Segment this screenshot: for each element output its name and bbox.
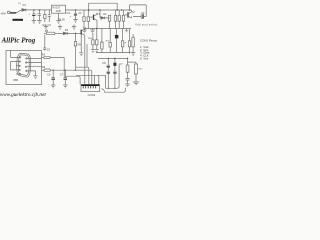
resistor bank row lower (101, 29, 103, 53)
cap C5 vertical above DB9 box (43, 35, 46, 51)
rail lower right 2 (98, 57, 128, 59)
svg-text:C7: C7 (60, 73, 64, 77)
capacitor C2 (38, 10, 41, 21)
svg-text:C?: C? (119, 62, 123, 66)
wire top rail left (21, 9, 51, 11)
svg-text:CON1: CON1 (88, 93, 96, 97)
diode D3 (63, 28, 75, 34)
svg-text:IC1: IC1 (66, 11, 71, 15)
node dots on rail (99, 9, 101, 11)
resistor column RB (88, 28, 99, 53)
bottom wire loop (106, 65, 120, 89)
resistor R2 vertical (83, 10, 85, 29)
resistor column RA (91, 33, 95, 53)
ground (58, 25, 62, 30)
ground (37, 21, 41, 24)
collector loop wire (89, 3, 118, 10)
svg-text:C1: C1 (37, 13, 41, 17)
cap C6 (47, 70, 55, 88)
DB9 connector (13, 53, 31, 82)
regulator gnd pin wire (58, 13, 60, 20)
transistor Q2 (125, 10, 135, 18)
resistor R1 vertical (43, 10, 47, 27)
CON1 connector (81, 85, 100, 97)
cap C9b dark (113, 58, 116, 89)
diode D1 (22, 3, 26, 11)
svg-text:AllPic Prog: AllPic Prog (1, 37, 36, 45)
svg-text:www.guelektro.cjb.net: www.guelektro.cjb.net (0, 92, 46, 98)
transistor Q3 (76, 26, 87, 84)
resistor R12 lower right (133, 62, 143, 85)
node dot (33, 9, 35, 11)
svg-text:5. Vss: 5. Vss (140, 57, 149, 61)
svg-text:Vdd mod select: Vdd mod select (135, 23, 157, 27)
mid chain resistor R8 (44, 29, 63, 35)
svg-text:CON1 Pinout: CON1 Pinout (140, 38, 157, 42)
upper sub rail right (130, 5, 147, 17)
svg-text:C6: C6 (47, 73, 51, 77)
CON1 pinout text (140, 38, 157, 60)
resistor R7 vertical (122, 10, 124, 23)
svg-text:IN OUT: IN OUT (52, 7, 60, 9)
ground (44, 25, 48, 30)
transistor Q1 (90, 12, 101, 29)
ground (56, 21, 60, 24)
ground below mid rail 2 (90, 29, 94, 33)
RC column C10 (119, 58, 136, 86)
mid rail right section (85, 28, 132, 30)
switch S1 (17, 10, 22, 13)
resistor R11 horizontal (42, 65, 92, 84)
resistor R6 vertical (118, 10, 120, 23)
svg-text:D2: D2 (103, 12, 107, 16)
ground below mid rail (82, 29, 86, 33)
resistor R9 vertical below node (74, 33, 81, 48)
svg-text:R9: R9 (78, 42, 82, 46)
rail lower right 1 (96, 52, 130, 54)
svg-text:D3: D3 (65, 28, 69, 32)
resistor R3 vertical (87, 10, 89, 29)
node dot (75, 33, 77, 35)
svg-text:D1: D1 (23, 3, 27, 7)
ground (73, 20, 77, 23)
capacitor C1 (29, 10, 41, 21)
stubs from resistor bank to mid rail (110, 23, 124, 28)
DC jack J1 (7, 11, 10, 14)
svg-text:C8: C8 (102, 61, 106, 65)
cap C7 (60, 70, 68, 88)
resistor right column (131, 34, 135, 55)
battery minus bar (13, 19, 24, 21)
ground (72, 25, 76, 30)
dark component (115, 35, 119, 39)
diode D2 (100, 10, 110, 19)
svg-text:R4: R4 (42, 65, 46, 69)
node dot (39, 9, 41, 11)
resistor R10 horizontal (42, 53, 65, 77)
regulator IC1 box (52, 5, 71, 21)
svg-text:C5: C5 (47, 47, 51, 51)
DB9 box (6, 51, 42, 85)
DB9 pin wires (16, 57, 20, 74)
svg-text:C4: C4 (78, 11, 82, 15)
bus wires into CON1 (64, 76, 80, 84)
svg-text:R3: R3 (42, 53, 46, 57)
svg-text:+9V: +9V (0, 12, 5, 16)
resistor R5 vertical (114, 10, 116, 23)
capacitor C3 small (48, 10, 52, 27)
capacitor C4 electrolytic (70, 10, 82, 20)
svg-text:GND: GND (56, 11, 61, 13)
capacitor C9 horizontal (133, 11, 146, 19)
ground inside box (33, 71, 37, 79)
resistor R4 vertical (108, 15, 110, 23)
node dot (88, 9, 90, 11)
ground (32, 21, 36, 24)
ground marks near x125 (125, 29, 128, 32)
top rail right of regulator (66, 9, 132, 11)
svg-text:DB9: DB9 (13, 78, 19, 82)
cap C8 (102, 58, 110, 89)
node dot (75, 9, 77, 11)
